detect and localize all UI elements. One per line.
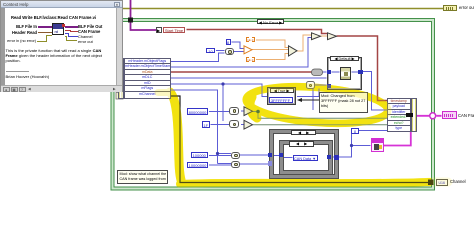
selector True	[270, 88, 294, 93]
terminal Channel	[436, 179, 449, 187]
wire const 1F	[211, 124, 230, 126]
tunnel inner loop right	[327, 155, 332, 160]
triangle cmp1	[244, 107, 253, 116]
tunnel default case right	[358, 70, 363, 75]
node bundle row timestamp	[388, 99, 410, 105]
wire mult out up to add1	[297, 35, 312, 51]
label CAN Frame	[458, 113, 474, 119]
bundle node rows	[387, 98, 411, 133]
wire const 1E-9 a to mult	[256, 40, 289, 48]
triangle multiply	[289, 46, 298, 56]
constant 1F	[202, 121, 210, 128]
wire vertical x223 to gates	[222, 84, 224, 121]
gate and5 top	[225, 48, 235, 56]
highlighter stroke: mChannel blob	[158, 82, 430, 184]
wire error (olive, top)	[123, 8, 443, 10]
wire CAN Frame cluster magenta	[384, 116, 411, 146]
wire add1 to add2	[321, 35, 328, 37]
comment Mod Changed from	[319, 92, 368, 114]
terminal error out	[443, 5, 457, 12]
tunnel outer loop left a	[268, 153, 273, 158]
node bundle row type	[388, 126, 410, 131]
tunnel inner loop left	[279, 153, 284, 158]
vi icon	[52, 23, 64, 35]
wire gate6 vertical stub	[312, 89, 314, 111]
node bundle row echo	[388, 121, 410, 127]
connector label BLF File In	[1, 24, 37, 29]
wire boxlet down	[232, 42, 245, 49]
constant 10	[206, 48, 215, 54]
node bundle row identifier	[388, 110, 410, 116]
constant 10000000	[187, 162, 208, 168]
for loop outer	[270, 130, 338, 179]
wire toDbl out	[252, 49, 289, 51]
wire gate1 to cmp1	[241, 110, 244, 112]
label error out	[459, 5, 474, 11]
heading	[11, 15, 115, 20]
node unbundle row mHeader.mObjectFlags	[125, 59, 170, 65]
gate and1	[229, 107, 239, 115]
selector label No Error	[257, 19, 284, 24]
wire inside default case	[332, 71, 359, 73]
enum CAN Data	[293, 155, 318, 161]
highlighter ring around mask area	[245, 82, 389, 128]
wire case default out to identifier	[363, 72, 387, 111]
author	[6, 74, 50, 79]
gray pill coercion	[312, 69, 323, 76]
junction black on bundle	[406, 113, 414, 118]
wire file refnum (purple)	[131, 0, 157, 30]
wire flags to and4	[218, 163, 232, 165]
node unbundle row mHeader.mObjectTimeStamp	[125, 64, 170, 70]
node bundle row payload	[388, 104, 410, 110]
case structure (error case, No Error) green border	[113, 20, 434, 189]
tunnel CAN Frame circle	[430, 113, 436, 119]
Context Help window	[0, 0, 123, 92]
node icon inside default case	[340, 67, 351, 80]
wire const 10000000	[209, 164, 231, 166]
wire row5 mID	[171, 84, 268, 97]
constant 3FFFFFFF	[269, 97, 293, 103]
triangle cmp2	[244, 120, 253, 129]
node bundle row extended	[388, 115, 410, 121]
bottom toolbar	[1, 85, 122, 92]
wire const 1E-9 b to mult	[256, 54, 289, 60]
wire timestamp maroon: Start Time to add	[187, 30, 328, 34]
wire mData maroon row3	[171, 71, 312, 73]
case structure True	[267, 87, 296, 105]
connector wire error out	[65, 36, 68, 37]
wire gate5 out	[234, 51, 244, 53]
wire timestamp maroon: add output to bundle	[337, 36, 388, 101]
wire channel black	[171, 96, 429, 183]
blue wires	[171, 38, 388, 166]
left frame stripe	[1, 8, 5, 85]
wire flags branch to and3	[218, 153, 232, 155]
wire inside loops to CAN Data	[273, 156, 293, 158]
constant 80000000	[187, 108, 208, 115]
node unbundle row mID	[125, 81, 170, 87]
wire row1 mObjectFlags	[171, 53, 225, 62]
wire row4 mDLC	[171, 77, 327, 79]
orange wires	[252, 35, 328, 60]
gate and6 mask	[306, 81, 315, 89]
constant small boxlet	[226, 39, 231, 45]
junction dots blue	[221, 82, 224, 85]
node pink class constant	[371, 138, 384, 152]
wire gate6 out	[315, 84, 327, 86]
tunnel channel black square	[428, 180, 434, 186]
connector label CAN Frame	[78, 29, 100, 34]
gate and4	[231, 161, 240, 168]
wire true case out to gate6	[297, 89, 319, 97]
wire and4 out	[240, 163, 269, 165]
selector inner loop	[289, 141, 314, 147]
tunnel outer loop right	[334, 155, 339, 160]
connector label error out	[78, 39, 93, 44]
constant small near loops	[351, 128, 359, 134]
node unbundle row mChannel	[125, 92, 170, 97]
gate and3	[231, 152, 240, 159]
wire and3 out to loop tunnel	[240, 154, 269, 156]
tunnel pale left border	[116, 93, 123, 100]
triangle add2	[328, 33, 337, 40]
description paragraph	[6, 48, 114, 64]
for loop inner	[280, 141, 332, 174]
connector wire purple out	[65, 26, 78, 28]
arrow from comment to constant	[299, 99, 319, 101]
gate and2	[229, 120, 239, 128]
terminal CAN Frame	[442, 111, 457, 119]
wire const 80000000	[209, 111, 229, 113]
wire const10 to gate	[216, 50, 225, 52]
connector wire CAN Frame out	[65, 30, 71, 31]
case structure Default	[327, 57, 362, 90]
label Channel	[450, 179, 466, 185]
tunnel purple through case border	[128, 18, 133, 23]
wire loops out up to type row	[332, 131, 388, 158]
bundle cluster column	[411, 98, 418, 133]
selector outer loop	[291, 130, 316, 136]
node unbundle row mDLC	[125, 75, 170, 81]
tunnel default case bottom	[327, 84, 332, 89]
separator	[6, 71, 29, 72]
constant 1E-9 a	[246, 37, 256, 43]
triangle toDbl orange	[244, 46, 252, 54]
connector label Header Read	[1, 30, 37, 35]
title bar	[1, 1, 122, 8]
wire pill to case tunnel	[323, 71, 327, 73]
wire row2 mObjectTimeStamp	[171, 38, 312, 68]
triangle add1	[312, 33, 321, 40]
wire cmp2 out to echo	[253, 124, 388, 126]
close button	[114, 2, 120, 7]
constant 100000	[191, 152, 209, 158]
connector wire header read	[38, 32, 52, 33]
comment Mod show channel	[117, 170, 168, 185]
wire gate2 to cmp2	[241, 124, 244, 126]
wire const 100000	[209, 155, 231, 157]
selector Default	[330, 56, 359, 61]
label Start Time	[163, 27, 185, 33]
tunnel outer loop left b	[268, 161, 273, 166]
connector label BLF File Out	[78, 24, 102, 29]
wire row6 mFlags	[171, 90, 218, 164]
node Start Time local	[156, 27, 162, 33]
highlighter stroke: horizontal channel wire	[180, 182, 430, 184]
constant 1E-9 b	[246, 57, 256, 63]
unbundle node rows	[118, 58, 124, 99]
junction dot boolean	[256, 110, 260, 114]
tunnel default case left	[327, 70, 332, 75]
highlighter stroke: vertical down to channel wire	[170, 92, 181, 180]
boolean wires dull green	[253, 112, 388, 125]
right scrollbar	[116, 8, 122, 85]
connector label Channel	[78, 34, 93, 39]
connector wire purple in	[38, 26, 52, 28]
node unbundle row mFlags	[125, 86, 170, 92]
connector wire channel out	[65, 33, 69, 34]
wire cmp1 out to extended	[253, 112, 388, 119]
connector wire error in	[37, 41, 47, 42]
wire branch to pink node	[352, 145, 371, 147]
connector label error in	[1, 39, 36, 43]
node unbundle row mData	[125, 70, 170, 76]
